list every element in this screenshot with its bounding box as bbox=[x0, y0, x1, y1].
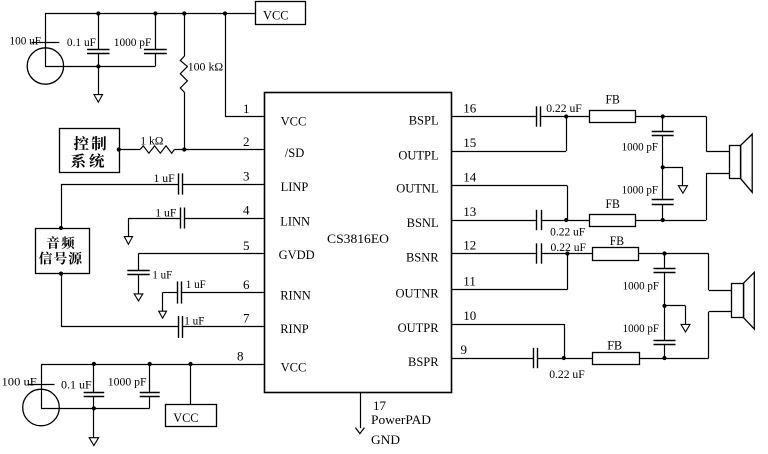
svg-text:VCC: VCC bbox=[263, 8, 289, 23]
svg-text:0.22 uF: 0.22 uF bbox=[546, 101, 582, 115]
svg-text:1 uF: 1 uF bbox=[152, 268, 172, 282]
svg-text:10: 10 bbox=[463, 308, 476, 323]
svg-text:GVDD: GVDD bbox=[279, 248, 315, 262]
svg-text:1000 pF: 1000 pF bbox=[622, 183, 659, 197]
svg-text:LINN: LINN bbox=[280, 214, 310, 228]
svg-text:8: 8 bbox=[237, 349, 244, 364]
svg-text:OUTNL: OUTNL bbox=[396, 182, 438, 196]
svg-text:1000 pF: 1000 pF bbox=[622, 140, 659, 154]
svg-text:1000 pF: 1000 pF bbox=[623, 279, 660, 293]
svg-text:100 kΩ: 100 kΩ bbox=[188, 59, 224, 73]
svg-text:1 uF: 1 uF bbox=[154, 171, 176, 185]
svg-text:PowerPAD: PowerPAD bbox=[371, 412, 431, 427]
svg-text:1 kΩ: 1 kΩ bbox=[140, 133, 163, 147]
svg-text:OUTPR: OUTPR bbox=[398, 321, 440, 335]
svg-text:1: 1 bbox=[243, 101, 250, 116]
svg-text:4: 4 bbox=[243, 203, 250, 218]
svg-text:1000 pF: 1000 pF bbox=[114, 35, 152, 49]
svg-text:VCC: VCC bbox=[281, 360, 307, 374]
svg-text:14: 14 bbox=[463, 170, 477, 185]
svg-text:CS3816EO: CS3816EO bbox=[327, 231, 389, 246]
svg-text:/SD: /SD bbox=[285, 146, 304, 160]
svg-text:OUTPL: OUTPL bbox=[398, 148, 438, 162]
svg-text:0.22 uF: 0.22 uF bbox=[549, 367, 585, 381]
svg-text:LINP: LINP bbox=[281, 180, 309, 194]
svg-text:BSNR: BSNR bbox=[406, 251, 439, 265]
svg-text:2: 2 bbox=[243, 134, 250, 149]
svg-text:15: 15 bbox=[463, 135, 476, 150]
svg-text:BSNL: BSNL bbox=[407, 216, 439, 230]
svg-text:FB: FB bbox=[606, 92, 621, 107]
svg-text:5: 5 bbox=[243, 238, 250, 253]
svg-text:VCC: VCC bbox=[173, 410, 198, 425]
svg-text:VCC: VCC bbox=[281, 114, 307, 128]
svg-text:FB: FB bbox=[607, 337, 622, 352]
svg-text:BSPR: BSPR bbox=[408, 355, 439, 369]
svg-text:9: 9 bbox=[461, 342, 468, 357]
svg-text:13: 13 bbox=[463, 204, 476, 219]
svg-text:16: 16 bbox=[463, 101, 477, 116]
svg-text:11: 11 bbox=[463, 274, 476, 289]
svg-text:7: 7 bbox=[243, 311, 250, 326]
svg-text:FB: FB bbox=[610, 233, 625, 248]
svg-text:BSPL: BSPL bbox=[409, 114, 439, 128]
svg-text:RINP: RINP bbox=[280, 322, 309, 336]
svg-text:100 uF: 100 uF bbox=[10, 33, 42, 47]
svg-text:3: 3 bbox=[243, 169, 250, 184]
svg-text:1 uF: 1 uF bbox=[184, 313, 204, 327]
svg-text:1000 pF: 1000 pF bbox=[108, 375, 147, 389]
svg-text:FB: FB bbox=[606, 196, 621, 211]
svg-text:100 uF: 100 uF bbox=[2, 375, 38, 389]
svg-text:12: 12 bbox=[463, 238, 476, 253]
svg-text:1 uF: 1 uF bbox=[186, 277, 206, 291]
svg-text:1 uF: 1 uF bbox=[155, 205, 177, 219]
svg-text:OUTNR: OUTNR bbox=[396, 287, 440, 301]
svg-text:GND: GND bbox=[371, 432, 400, 447]
svg-text:6: 6 bbox=[243, 277, 250, 292]
svg-text:17: 17 bbox=[373, 398, 387, 413]
svg-text:0.1 uF: 0.1 uF bbox=[61, 377, 92, 391]
svg-text:0.1 uF: 0.1 uF bbox=[67, 35, 96, 49]
svg-text:0.22 uF: 0.22 uF bbox=[550, 225, 585, 239]
svg-text:0.22 uF: 0.22 uF bbox=[551, 240, 587, 254]
svg-text:1000 pF: 1000 pF bbox=[623, 321, 660, 335]
svg-text:RINN: RINN bbox=[280, 288, 311, 302]
